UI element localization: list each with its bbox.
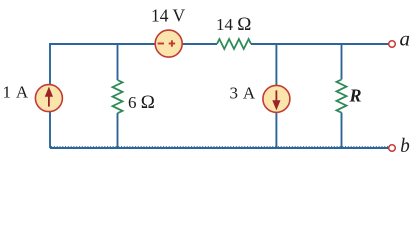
svg-text:b: b	[400, 135, 410, 157]
terminal b	[389, 145, 396, 152]
svg-text:6 Ω: 6 Ω	[128, 92, 155, 113]
resistor R	[337, 80, 347, 113]
wire R branch bottom	[341, 113, 343, 149]
wire 6-ohm branch top	[117, 44, 119, 80]
voltage source V1 14V	[155, 30, 182, 57]
wire top rail right segment to terminal a	[251, 43, 389, 45]
svg-text:14 V: 14 V	[151, 6, 186, 26]
wire top rail left segment	[50, 44, 217, 148]
svg-text:1 A: 1 A	[3, 83, 30, 102]
svg-text:a: a	[400, 29, 411, 51]
terminal a	[389, 41, 396, 48]
svg-text:3 A: 3 A	[230, 83, 257, 102]
svg-text:R: R	[349, 85, 362, 105]
resistor 6 ohm	[113, 80, 123, 113]
wire R branch top	[341, 44, 343, 80]
svg-text:14 Ω: 14 Ω	[216, 14, 251, 35]
current source I2 3A	[263, 85, 290, 112]
wire 3A branch	[275, 44, 277, 148]
wire bottom rail tick texture	[51, 146, 389, 148]
wire bottom rail	[50, 147, 389, 149]
current source I1 1A	[35, 85, 62, 112]
resistor 14 ohm	[217, 39, 251, 49]
wire 6-ohm branch bottom	[117, 113, 119, 148]
